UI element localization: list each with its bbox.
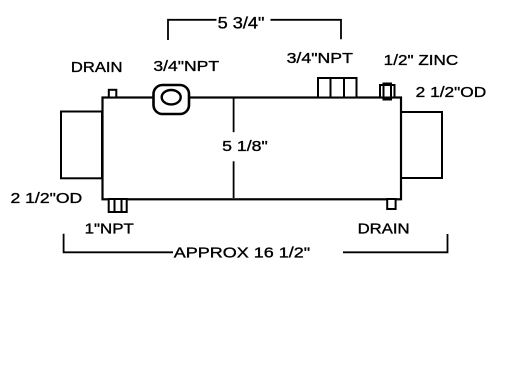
svg-text:1"NPT: 1"NPT: [85, 221, 134, 238]
left end cap 2 1/2"OD connector: [61, 112, 102, 179]
top-left drain plug: [109, 90, 117, 98]
svg-text:3/4"NPT: 3/4"NPT: [287, 50, 353, 67]
svg-text:5 3/4": 5 3/4": [218, 14, 265, 32]
dimension bracket 5 3/4 left: [168, 20, 217, 40]
dimension line 5 1/8 upper segment: [233, 98, 235, 132]
svg-text:DRAIN: DRAIN: [358, 221, 410, 238]
dimension bracket approx 16 1/2 right: [343, 234, 448, 252]
dimension line 5 1/8 lower segment: [233, 161, 235, 198]
1/2" zinc anode plug: [380, 84, 395, 100]
svg-text:APPROX 16 1/2": APPROX 16 1/2": [174, 245, 310, 262]
main body (heat exchanger shell): [103, 98, 402, 200]
svg-text:3/4"NPT: 3/4"NPT: [153, 58, 219, 75]
svg-text:2 1/2"OD: 2 1/2"OD: [416, 84, 487, 101]
right end cap 2 1/2"OD connector: [401, 112, 442, 178]
svg-text:1/2" ZINC: 1/2" ZINC: [384, 52, 459, 69]
3/4"NPT boss (rounded square with port): [154, 85, 190, 114]
1"NPT hex fitting (bottom): [109, 199, 127, 212]
svg-text:5 1/8": 5 1/8": [222, 138, 268, 155]
dimension bracket approx 16 1/2 left: [64, 234, 173, 253]
dimension bracket 5 3/4 right: [271, 20, 342, 39]
bottom-right drain plug: [387, 199, 395, 209]
svg-text:2 1/2"OD: 2 1/2"OD: [11, 190, 83, 207]
3/4"NPT hex fitting (right): [318, 78, 357, 98]
port ellipse: [162, 90, 181, 104]
svg-text:DRAIN: DRAIN: [71, 59, 123, 76]
